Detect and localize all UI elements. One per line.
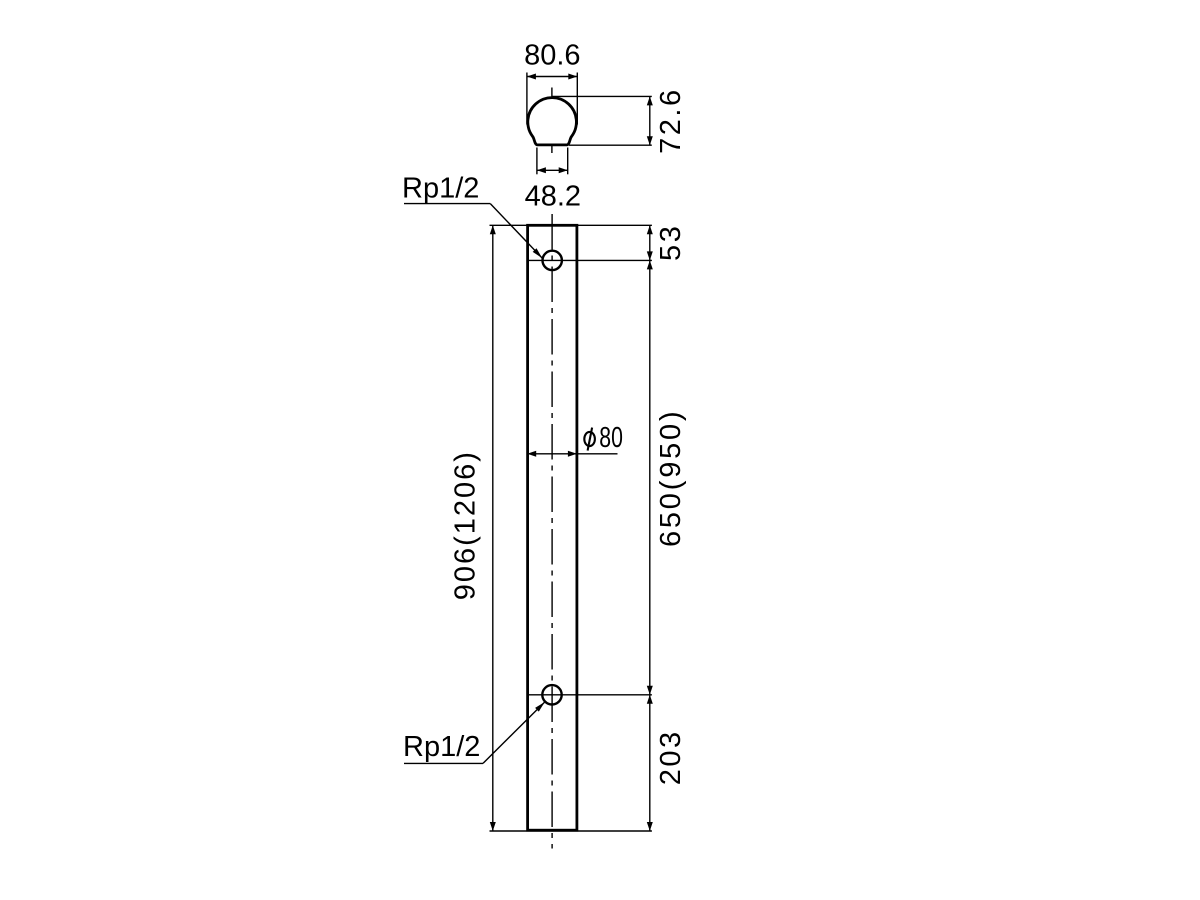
svg-text:Rp1/2: Rp1/2 <box>403 731 480 763</box>
svg-text:650(950): 650(950) <box>655 409 687 548</box>
svg-text:48.2: 48.2 <box>525 180 581 212</box>
svg-text:203: 203 <box>655 729 687 785</box>
svg-text:72.6: 72.6 <box>655 87 687 153</box>
svg-text:906(1206): 906(1206) <box>450 450 482 600</box>
svg-text:53: 53 <box>655 224 687 261</box>
svg-text:80: 80 <box>599 422 623 454</box>
svg-text:80.6: 80.6 <box>524 40 580 72</box>
svg-text:Rp1/2: Rp1/2 <box>402 173 479 205</box>
